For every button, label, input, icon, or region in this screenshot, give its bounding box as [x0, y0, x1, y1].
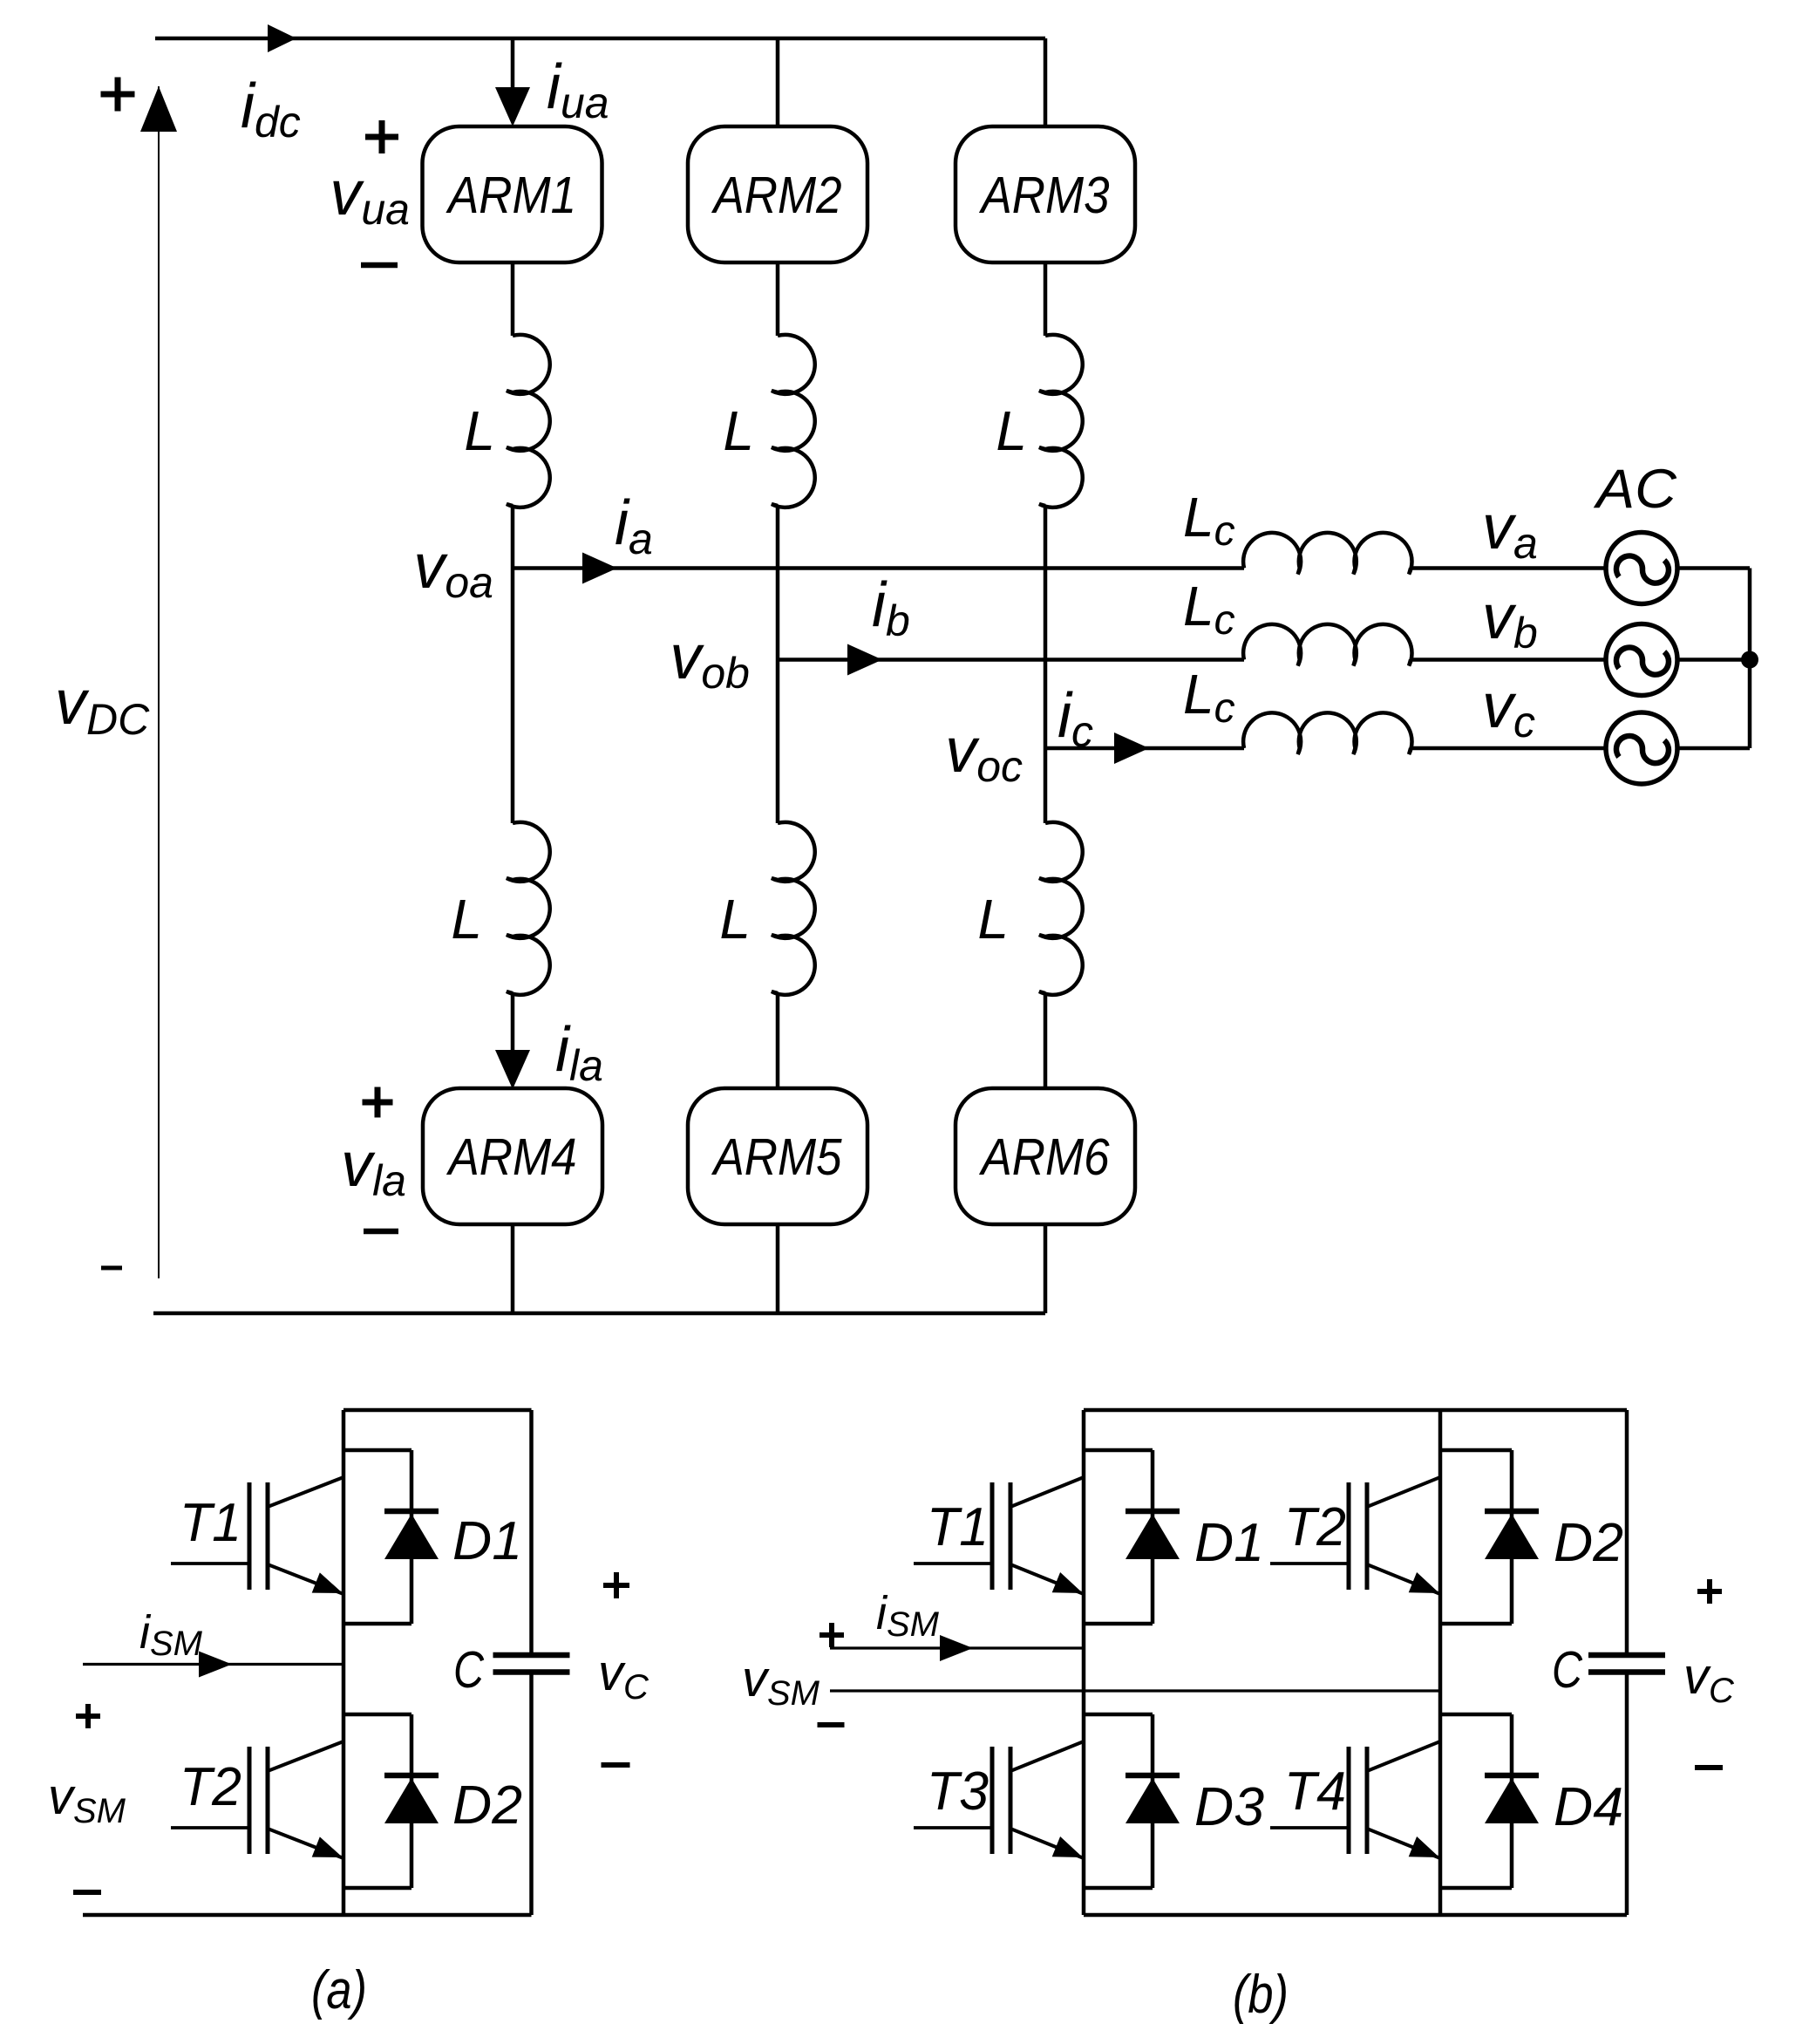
svg-text:(a): (a) — [311, 1960, 367, 2020]
svg-text:T1: T1 — [180, 1493, 241, 1553]
svg-text:ARM4: ARM4 — [446, 1128, 577, 1186]
svg-text:D2: D2 — [1554, 1513, 1623, 1573]
svg-text:ARM6: ARM6 — [979, 1128, 1110, 1186]
svg-text:T1: T1 — [927, 1497, 989, 1557]
svg-text:D1: D1 — [452, 1511, 522, 1571]
svg-text:L: L — [996, 399, 1027, 462]
svg-text:L: L — [451, 888, 482, 950]
svg-text:L: L — [977, 888, 1009, 950]
svg-text:L: L — [723, 399, 754, 462]
svg-text:L: L — [719, 888, 751, 950]
svg-text:D4: D4 — [1554, 1777, 1623, 1837]
svg-text:T2: T2 — [180, 1757, 241, 1817]
svg-text:ARM2: ARM2 — [711, 167, 842, 224]
svg-text:(b): (b) — [1233, 1965, 1289, 2025]
svg-text:D3: D3 — [1194, 1777, 1264, 1837]
svg-text:D1: D1 — [1194, 1513, 1264, 1573]
svg-text:T4: T4 — [1284, 1761, 1346, 1822]
svg-text:C: C — [453, 1641, 484, 1699]
svg-text:T2: T2 — [1284, 1497, 1346, 1557]
svg-text:L: L — [464, 399, 495, 462]
svg-text:ARM3: ARM3 — [979, 167, 1110, 224]
svg-text:ARM5: ARM5 — [711, 1128, 842, 1186]
svg-text:D2: D2 — [452, 1775, 522, 1836]
svg-text:ARM1: ARM1 — [445, 167, 576, 224]
svg-text:T3: T3 — [927, 1761, 989, 1822]
svg-text:C: C — [1552, 1641, 1582, 1699]
svg-text:AC: AC — [1593, 459, 1677, 520]
